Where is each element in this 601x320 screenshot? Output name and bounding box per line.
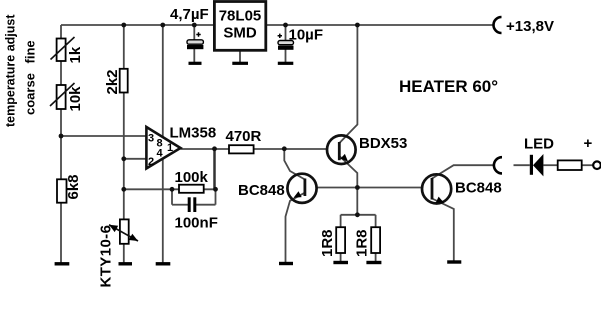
svg-text:BC848: BC848: [455, 180, 502, 197]
svg-text:470R: 470R: [226, 128, 262, 145]
svg-text:100nF: 100nF: [175, 215, 218, 232]
svg-text:3: 3: [148, 133, 154, 145]
svg-text:LED: LED: [524, 136, 554, 153]
svg-text:KTY10-6: KTY10-6: [98, 225, 115, 288]
svg-text:1R8: 1R8: [353, 229, 370, 257]
svg-text:4: 4: [157, 148, 164, 160]
svg-text:100k: 100k: [175, 169, 209, 186]
svg-text:10µF: 10µF: [289, 27, 324, 44]
svg-text:1: 1: [167, 142, 173, 154]
svg-text:+: +: [584, 135, 593, 152]
svg-text:temperature adjust: temperature adjust: [4, 14, 18, 127]
svg-text:10k: 10k: [67, 86, 84, 112]
svg-text:BDX53: BDX53: [359, 135, 407, 152]
svg-text:+13,8V: +13,8V: [506, 18, 554, 35]
svg-text:coarse: coarse: [23, 73, 38, 115]
svg-text:2k2: 2k2: [104, 69, 121, 94]
svg-text:HEATER 60°: HEATER 60°: [399, 77, 498, 96]
svg-text:LM358: LM358: [170, 125, 217, 142]
svg-text:6k8: 6k8: [65, 174, 82, 199]
svg-text:2: 2: [148, 156, 154, 168]
svg-text:SMD: SMD: [223, 25, 257, 42]
svg-text:fine: fine: [23, 40, 38, 63]
svg-text:78L05: 78L05: [219, 8, 262, 25]
svg-text:1k: 1k: [67, 46, 84, 63]
svg-text:4,7µF: 4,7µF: [170, 6, 209, 23]
svg-text:1R8: 1R8: [319, 229, 336, 257]
svg-text:BC848: BC848: [238, 182, 285, 199]
